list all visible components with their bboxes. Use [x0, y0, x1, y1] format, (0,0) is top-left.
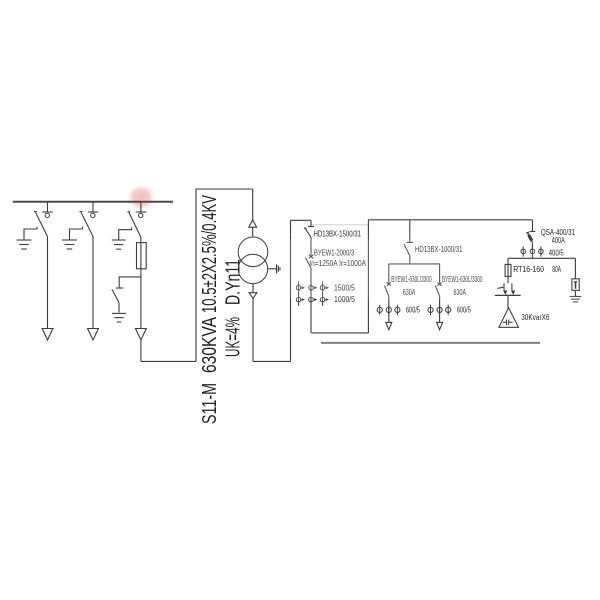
capacitor mark left lead: [503, 321, 506, 323]
HV bus bar: [13, 201, 173, 203]
feeder 3 arrow: [136, 329, 147, 341]
wire to transformer box: [141, 360, 196, 362]
A branch load arrow: [386, 322, 392, 329]
B CT b: [439, 305, 441, 315]
feeder 1 wire: [47, 237, 49, 329]
svg-text:HD13BX-1500/31: HD13BX-1500/31: [314, 229, 362, 238]
fuse-switch QSA blade: [527, 233, 532, 243]
pink watermark blob: [127, 184, 155, 211]
fuse FU2 wire: [507, 264, 509, 283]
CT row2 b: [310, 293, 312, 306]
CT row2 a: [298, 293, 300, 306]
LV bus bar: [321, 342, 540, 344]
earth switch ES3 tick: [116, 287, 123, 289]
svg-text:80A: 80A: [552, 265, 561, 274]
surge arrester F1 box: [572, 279, 579, 291]
capacitor mark right lead: [509, 321, 512, 323]
earth switch arm 1: [24, 227, 37, 240]
svg-text:600/5: 600/5: [406, 305, 421, 314]
B breaker blade: [435, 286, 439, 297]
transformer label box: [196, 189, 253, 361]
fuse-switch QSA body: [529, 235, 532, 241]
disconnect switch QS2 blade: [81, 212, 93, 236]
disconnect switch QS3 blade: [129, 212, 141, 237]
surge arrester F1 arrow: [574, 281, 578, 284]
svg-text:S11-M: S11-M: [199, 383, 221, 424]
CT row1 a: [298, 281, 300, 294]
disconnect switch QS1 blade serif: [34, 211, 37, 213]
contactor bar: [495, 294, 521, 296]
contactor release tick: [497, 287, 503, 288]
wire to fuse: [140, 237, 142, 242]
flow arrow up: [249, 220, 257, 227]
wire QS4 to QF1: [310, 237, 312, 255]
arrester branch wire: [574, 258, 576, 279]
wire arrow to corner: [140, 340, 142, 361]
svg-text:UK=4%: UK=4%: [223, 317, 245, 357]
A CT c: [396, 305, 398, 315]
svg-text:400/5: 400/5: [549, 248, 564, 257]
A branch wire: [388, 264, 390, 283]
ground G5: [570, 295, 582, 297]
HV lead: [252, 189, 254, 220]
disconnect switch QS2 stub: [92, 202, 94, 212]
B breaker wire down: [439, 296, 441, 322]
earth switch arm 2: [70, 227, 83, 240]
neutral ground bar 2: [277, 266, 279, 272]
fuse FU1: [137, 243, 147, 269]
fuse-switch QSA tick2: [526, 231, 529, 234]
feeder 2 wire: [92, 237, 94, 329]
box1 faint top edge: [312, 224, 368, 226]
wire QF1 down: [310, 268, 312, 333]
disconnect switch QS1 tick: [42, 211, 52, 213]
earth branch wire: [119, 277, 141, 288]
capacitor mark plate 1: [506, 320, 508, 325]
B CT a: [430, 305, 432, 315]
cap branch wire: [507, 258, 509, 264]
A breaker blade: [385, 286, 389, 297]
svg-text:600/5: 600/5: [457, 305, 472, 314]
disconnect switch QS3 stub: [140, 202, 142, 212]
disconnect switch QS1 blade: [36, 212, 48, 236]
LV top wire: [291, 219, 312, 221]
CT row2 c: [322, 293, 324, 306]
disconnect switch QS2 blade serif: [80, 211, 83, 213]
svg-text:630KVA: 630KVA: [199, 316, 221, 373]
CT row1 b: [310, 281, 312, 294]
B branch wire: [439, 264, 441, 283]
switch QS4 tick: [308, 225, 314, 227]
wire through fuse: [140, 243, 142, 329]
switch QS5 tick: [407, 241, 413, 243]
wire CT down: [531, 257, 533, 259]
neutral ground bar 3: [279, 267, 281, 270]
B breaker contact cross: [438, 283, 442, 286]
svg-text:30KvarX6: 30KvarX6: [521, 313, 550, 322]
capacitor bank triangle: [499, 308, 519, 328]
distribution bar: [508, 257, 575, 259]
LV riser: [290, 220, 292, 361]
earth switch ES3 blade: [112, 289, 119, 302]
top wire corner: [532, 220, 534, 231]
A CT a: [379, 305, 381, 315]
ground G2: [62, 239, 77, 241]
switch QS4 blade serif: [304, 227, 307, 229]
surge arrester wire: [574, 290, 576, 296]
LV lead: [252, 284, 254, 293]
disconnect switch QS3 tick: [136, 211, 146, 213]
A breaker contact cross: [387, 283, 391, 286]
wire QS5 to splitter: [409, 256, 411, 264]
HV lead 2: [252, 227, 254, 237]
switch QS4 blade: [305, 229, 311, 238]
B branch load arrow: [437, 322, 443, 329]
CT cap a: [522, 246, 524, 256]
disconnect switch QS1 pivot: [45, 213, 49, 217]
breaker QF1 contact cross: [309, 255, 313, 259]
neutral ground bar 1: [276, 264, 278, 273]
earth switch arm 3: [119, 227, 132, 240]
A CT b: [388, 305, 390, 315]
disconnect switch QS1 stub: [47, 202, 49, 212]
fuse FU2: [505, 264, 511, 276]
feeder 2 load arrow: [88, 329, 99, 341]
svg-text:400A: 400A: [552, 236, 565, 245]
svg-text:D.Yn11: D.Yn11: [223, 259, 245, 305]
svg-text:RT16-160: RT16-160: [513, 265, 544, 274]
LV bottom wire: [253, 360, 291, 362]
neutral earth arm: [268, 268, 277, 270]
wire QSA to CT: [531, 242, 533, 249]
CT cap b: [531, 246, 533, 256]
breaker QF1 blade: [305, 258, 311, 268]
B CT c: [447, 305, 449, 315]
transformer T1 primary winding: [238, 237, 268, 267]
ground G1: [17, 239, 32, 241]
ground G3: [112, 239, 126, 241]
A breaker wire down: [388, 296, 390, 322]
box2 top edge: [368, 219, 532, 221]
capacitor mark plate 2: [508, 320, 510, 325]
disconnect switch QS3 blade serif: [127, 211, 130, 213]
box1 bottom edge: [312, 332, 369, 334]
white watermark band: [284, 239, 487, 299]
flow arrow down: [249, 293, 257, 299]
ground G4: [112, 312, 126, 314]
switch QS5 blade: [404, 244, 410, 255]
LV lead 2: [252, 298, 254, 361]
CT cap c: [540, 246, 542, 256]
contactor hook right: [512, 283, 513, 293]
box1 right edge: [367, 220, 369, 333]
contactor hook left: [504, 283, 505, 293]
svg-text:10.5±2X2.5%/0.4KV: 10.5±2X2.5%/0.4KV: [199, 195, 221, 313]
splitter bar: [389, 263, 440, 265]
disconnect switch QS2 tick: [88, 211, 98, 213]
earth switch ES3 wire: [118, 303, 120, 313]
transformer T1 secondary winding: [238, 254, 267, 283]
incomer stub: [310, 220, 312, 226]
disconnect switch QS2 pivot: [91, 213, 95, 217]
disconnect switch QS3 pivot: [139, 213, 143, 217]
CT row1 c: [322, 281, 324, 294]
fuse-switch QSA tick: [530, 231, 536, 233]
contactor wire down: [507, 295, 509, 307]
feeder 1 load arrow: [42, 329, 53, 341]
switch QS5 stub: [409, 220, 411, 242]
